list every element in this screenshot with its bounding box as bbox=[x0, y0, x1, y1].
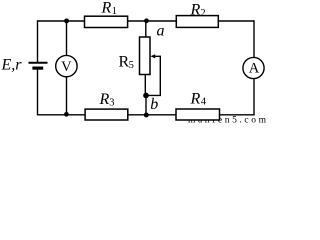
wiper arrow head bbox=[150, 54, 155, 58]
svg-text:R: R bbox=[190, 90, 201, 107]
svg-text:3: 3 bbox=[109, 98, 114, 109]
svg-text:1: 1 bbox=[112, 6, 117, 17]
wiper arrow shaft of R5 bbox=[146, 56, 160, 95]
ammeter A circle bbox=[243, 57, 264, 78]
battery E,r short plate bbox=[32, 66, 43, 69]
resistor R4 bbox=[176, 109, 220, 120]
wire right vertical upper bbox=[253, 20, 255, 57]
wire left vertical upper bbox=[37, 20, 39, 62]
svg-text:R: R bbox=[101, 0, 112, 17]
junction dot top-left bbox=[64, 18, 69, 23]
wire top bbox=[38, 20, 255, 22]
junction dot bottom-center bbox=[144, 113, 149, 118]
resistor R1 bbox=[85, 16, 128, 27]
wire node b to bottom wire bbox=[145, 96, 147, 116]
voltmeter V circle bbox=[56, 55, 77, 76]
svg-text:A: A bbox=[249, 61, 260, 77]
resistor R5 (vertical) bbox=[140, 37, 151, 75]
resistor R2 bbox=[176, 16, 218, 28]
svg-text:5: 5 bbox=[129, 60, 134, 71]
node a dot bbox=[144, 18, 149, 23]
wire voltmeter branch upper bbox=[66, 21, 68, 56]
wire right vertical lower bbox=[253, 79, 255, 116]
svg-text:4: 4 bbox=[201, 97, 207, 108]
svg-text:E,r: E,r bbox=[1, 57, 23, 74]
wire voltmeter branch lower bbox=[66, 77, 68, 115]
node b dot bbox=[143, 93, 149, 99]
junction dot bottom-left bbox=[64, 112, 69, 117]
battery E,r long plate bbox=[29, 62, 48, 64]
svg-text:V: V bbox=[61, 59, 72, 75]
svg-text:R: R bbox=[190, 1, 201, 18]
svg-text:b: b bbox=[150, 96, 158, 113]
wire R5 bottom to node b bbox=[144, 75, 146, 96]
resistor R3 bbox=[85, 109, 128, 120]
wire bottom bbox=[38, 114, 255, 116]
svg-text:a: a bbox=[157, 22, 165, 39]
wire node a to R5 bbox=[145, 21, 147, 38]
svg-text:R: R bbox=[99, 91, 110, 108]
wire left vertical lower bbox=[37, 68, 39, 116]
svg-text:2: 2 bbox=[200, 8, 205, 19]
